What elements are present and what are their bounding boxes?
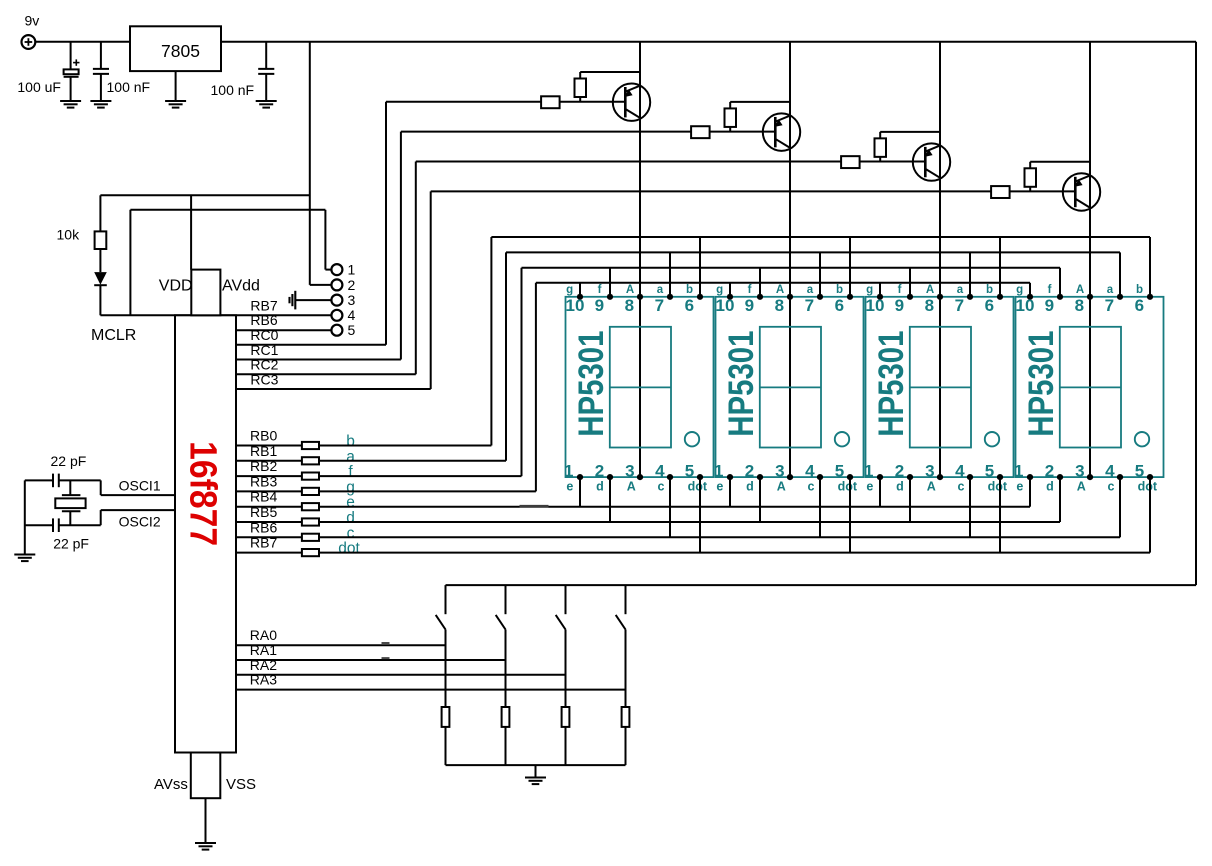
svg-text:100 uF: 100 uF — [17, 79, 61, 95]
svg-text:8: 8 — [925, 296, 934, 315]
svg-text:f: f — [598, 284, 602, 296]
svg-text:RB7: RB7 — [250, 297, 277, 313]
svg-text:f: f — [748, 284, 752, 296]
svg-text:100 nF: 100 nF — [211, 82, 255, 98]
svg-text:RB6: RB6 — [250, 519, 277, 535]
svg-text:5: 5 — [985, 462, 994, 481]
svg-text:100 nF: 100 nF — [107, 79, 151, 95]
svg-text:RC2: RC2 — [250, 357, 278, 373]
svg-text:3: 3 — [348, 292, 356, 308]
svg-text:22 pF: 22 pF — [53, 535, 89, 551]
svg-text:RA2: RA2 — [250, 657, 277, 673]
svg-text:RB2: RB2 — [250, 458, 277, 474]
svg-text:HP5301: HP5301 — [871, 330, 910, 436]
svg-text:d: d — [896, 480, 904, 494]
svg-text:e: e — [566, 480, 573, 494]
svg-text:a: a — [957, 284, 964, 296]
svg-text:4: 4 — [348, 307, 356, 323]
svg-text:dot: dot — [838, 480, 858, 494]
svg-text:dot: dot — [338, 540, 360, 557]
svg-text:7: 7 — [805, 296, 814, 315]
svg-text:A: A — [776, 284, 784, 296]
svg-text:RB5: RB5 — [250, 504, 277, 520]
svg-text:8: 8 — [775, 296, 784, 315]
svg-text:c: c — [958, 480, 965, 494]
svg-text:g: g — [866, 284, 873, 296]
svg-text:2: 2 — [745, 462, 754, 481]
svg-text:5: 5 — [685, 462, 694, 481]
svg-text:a: a — [657, 284, 664, 296]
svg-text:e: e — [1016, 480, 1023, 494]
svg-text:6: 6 — [1135, 296, 1144, 315]
svg-text:4: 4 — [655, 462, 665, 481]
svg-text:g: g — [1016, 284, 1023, 296]
svg-text:b: b — [1136, 284, 1143, 296]
svg-text:c: c — [658, 480, 665, 494]
svg-text:3: 3 — [775, 462, 784, 481]
svg-text:c: c — [1108, 480, 1115, 494]
svg-text:RA0: RA0 — [250, 627, 277, 643]
svg-text:RA3: RA3 — [250, 672, 277, 688]
svg-text:9: 9 — [745, 296, 754, 315]
svg-text:7: 7 — [1105, 296, 1114, 315]
svg-text:AVdd: AVdd — [222, 278, 260, 295]
svg-text:6: 6 — [835, 296, 844, 315]
svg-text:OSCI1: OSCI1 — [119, 478, 161, 494]
svg-text:9: 9 — [895, 296, 904, 315]
svg-text:2: 2 — [895, 462, 904, 481]
svg-text:8: 8 — [1075, 296, 1084, 315]
svg-text:A: A — [927, 480, 936, 494]
svg-text:b: b — [986, 284, 993, 296]
svg-text:5: 5 — [835, 462, 844, 481]
svg-text:g: g — [566, 284, 573, 296]
svg-text:1: 1 — [864, 462, 873, 481]
svg-text:16f877: 16f877 — [182, 441, 225, 546]
svg-text:a: a — [1107, 284, 1114, 296]
svg-text:5: 5 — [348, 322, 356, 338]
svg-text:A: A — [627, 480, 636, 494]
svg-text:RC0: RC0 — [250, 327, 278, 343]
svg-text:RB0: RB0 — [250, 428, 277, 444]
svg-text:d: d — [596, 480, 604, 494]
svg-text:4: 4 — [1105, 462, 1115, 481]
svg-text:b: b — [686, 284, 693, 296]
svg-text:4: 4 — [805, 462, 815, 481]
svg-text:7: 7 — [655, 296, 664, 315]
svg-text:RA1: RA1 — [250, 642, 277, 658]
svg-text:RC3: RC3 — [250, 371, 278, 387]
svg-text:HP5301: HP5301 — [571, 330, 610, 436]
svg-text:7: 7 — [955, 296, 964, 315]
svg-text:9: 9 — [1045, 296, 1054, 315]
svg-text:RB1: RB1 — [250, 443, 277, 459]
svg-text:2: 2 — [1045, 462, 1054, 481]
svg-text:10: 10 — [716, 296, 735, 315]
svg-text:9: 9 — [595, 296, 604, 315]
svg-text:2: 2 — [348, 277, 356, 293]
svg-text:A: A — [777, 480, 786, 494]
svg-text:f: f — [1048, 284, 1052, 296]
svg-text:8: 8 — [625, 296, 634, 315]
svg-text:A: A — [1077, 480, 1086, 494]
svg-text:A: A — [1076, 284, 1084, 296]
svg-text:22 pF: 22 pF — [51, 453, 87, 469]
svg-text:dot: dot — [988, 480, 1008, 494]
svg-text:c: c — [808, 480, 815, 494]
svg-text:2: 2 — [595, 462, 604, 481]
svg-text:RB7: RB7 — [250, 535, 277, 551]
svg-text:f: f — [898, 284, 902, 296]
svg-text:4: 4 — [955, 462, 965, 481]
svg-text:HP5301: HP5301 — [1021, 330, 1060, 436]
svg-text:9v: 9v — [25, 13, 40, 29]
svg-text:7805: 7805 — [161, 41, 200, 61]
svg-text:a: a — [807, 284, 814, 296]
svg-text:1: 1 — [714, 462, 723, 481]
svg-text:dot: dot — [1138, 480, 1158, 494]
svg-text:1: 1 — [564, 462, 573, 481]
svg-text:g: g — [716, 284, 723, 296]
svg-text:3: 3 — [625, 462, 634, 481]
svg-text:RB3: RB3 — [250, 473, 277, 489]
svg-text:3: 3 — [925, 462, 934, 481]
svg-text:b: b — [836, 284, 843, 296]
svg-text:3: 3 — [1075, 462, 1084, 481]
svg-text:10k: 10k — [57, 227, 81, 243]
svg-text:RB4: RB4 — [250, 489, 277, 505]
svg-text:RB6: RB6 — [250, 312, 277, 328]
svg-text:VSS: VSS — [226, 776, 256, 793]
svg-text:A: A — [626, 284, 634, 296]
svg-text:MCLR: MCLR — [91, 327, 136, 344]
svg-text:RC1: RC1 — [250, 342, 278, 358]
svg-text:d: d — [746, 480, 754, 494]
svg-text:1: 1 — [348, 262, 356, 278]
svg-text:10: 10 — [866, 296, 885, 315]
svg-text:e: e — [716, 480, 723, 494]
svg-text:1: 1 — [1014, 462, 1023, 481]
svg-text:dot: dot — [688, 480, 708, 494]
svg-text:10: 10 — [566, 296, 585, 315]
svg-text:d: d — [1046, 480, 1054, 494]
svg-text:A: A — [926, 284, 934, 296]
svg-text:e: e — [866, 480, 873, 494]
svg-text:10: 10 — [1016, 296, 1035, 315]
svg-text:6: 6 — [685, 296, 694, 315]
svg-text:6: 6 — [985, 296, 994, 315]
svg-text:5: 5 — [1135, 462, 1144, 481]
svg-text:VDD: VDD — [159, 278, 193, 295]
svg-text:HP5301: HP5301 — [721, 330, 760, 436]
svg-text:AVss: AVss — [154, 776, 188, 793]
svg-text:OSCI2: OSCI2 — [119, 514, 161, 530]
